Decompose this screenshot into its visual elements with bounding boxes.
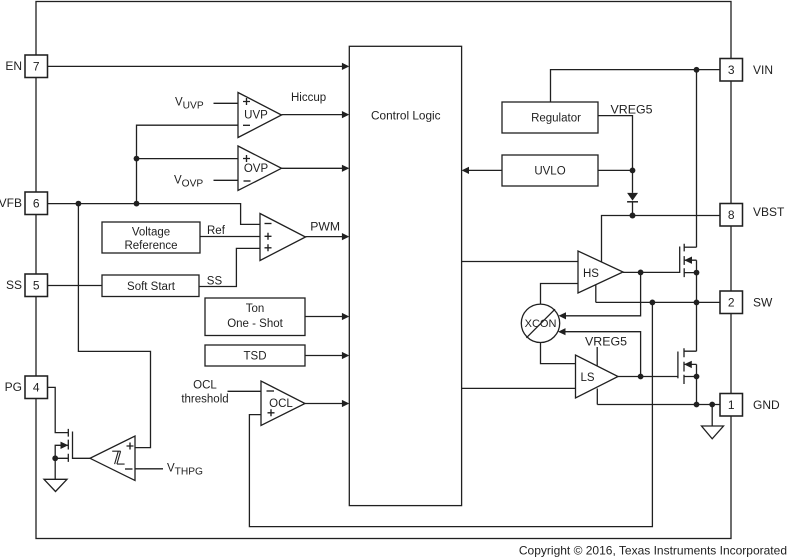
wire OCL out [305,400,349,407]
svg-text:7: 7 [33,60,40,74]
wire OVP out [282,165,350,172]
svg-text:OVP: OVP [244,163,269,175]
svg-text:PG: PG [5,380,22,394]
svg-text:3: 3 [728,63,735,77]
wire LS out to XCON [558,328,641,376]
wire Ref to PWM [200,225,260,237]
wire Q3 gate from comparator [73,457,91,459]
svg-text:8: 8 [728,208,735,222]
wire Hiccup UVP out [282,92,350,118]
comparator U5 THPG (points left) [90,436,135,481]
svg-text:threshold: threshold [181,394,228,406]
block Ton one-shot [205,298,305,336]
svg-text:VIN: VIN [753,63,773,77]
svg-text:VUVP: VUVP [175,97,204,112]
wire VOVP stub [214,179,239,181]
pin 2 SW [720,291,773,314]
svg-text:Soft Start: Soft Start [127,281,176,293]
node OCL threshold label [181,380,228,406]
wire Ton out [305,313,349,320]
svg-text:Copyright © 2016, Texas Instru: Copyright © 2016, Texas Instruments Inco… [519,544,787,558]
wire VFB to OVP plus [134,156,238,162]
svg-text:Ref: Ref [207,225,226,237]
wire OCL threshold stub [228,390,262,392]
comparator UVP [238,93,282,138]
wire UVLO to control logic [462,167,502,174]
wire TSD out [305,352,349,359]
block TSD [205,345,305,366]
svg-text:One - Shot: One - Shot [227,318,283,330]
pin 3 VIN [720,59,773,82]
transistor Q1 HS FET [680,244,700,303]
transistor Q3 PG pulldown [52,429,72,462]
comparator OVP [238,146,282,191]
comparator OCL [261,381,305,426]
svg-text:Reference: Reference [124,240,177,252]
wire control logic to LS [462,387,576,389]
ground at pin 1 [702,405,724,439]
wire control logic to HS [462,261,578,263]
svg-text:TSD: TSD [244,351,267,363]
comparator PWM [260,214,306,261]
wire THPG plus from VFB [78,204,150,448]
wire PG to Q3 drain [48,387,69,432]
pin 8 VBST [720,204,785,227]
svg-text:VREG5: VREG5 [585,335,627,349]
svg-text:1: 1 [728,398,735,412]
svg-text:VTHPG: VTHPG [167,463,203,478]
wire LS bottom to GND [596,389,598,405]
svg-text:UVLO: UVLO [534,166,565,178]
wire UVLO to VREG5 [598,168,635,174]
svg-text:6: 6 [33,197,40,211]
ground below Q3 [44,458,67,491]
wire SW line [596,300,720,306]
pin 6 VFB [0,192,48,215]
pin 7 EN [5,55,47,78]
svg-text:LS: LS [581,372,595,384]
svg-text:Regulator: Regulator [531,113,581,125]
circle XCON [521,304,559,342]
wire VFB to UVP minus [137,125,239,203]
block soft start [102,275,199,297]
wire HS out to Q1 gate [623,270,680,276]
wire SS to PWM [199,248,260,287]
svg-text:VBST: VBST [753,205,785,219]
svg-text:5: 5 [33,279,40,293]
wire VFB net [48,201,261,225]
svg-text:SS: SS [207,276,223,288]
wire VREG5 stub to LS [596,347,598,366]
svg-text:PWM: PWM [310,219,340,233]
svg-text:Hiccup: Hiccup [291,92,326,104]
diode D1 [627,193,638,202]
wire THPG minus stub [135,468,163,470]
wire pin5 to soft start [48,285,103,287]
pin 5 SS [6,274,48,297]
pin 1 GND [720,394,780,417]
wire VIN net [551,67,721,247]
wire HS out to XCON [559,272,641,319]
svg-text:SW: SW [753,296,773,310]
wire EN to control logic [48,63,350,70]
wire XCON to HS input [541,284,579,305]
svg-text:XCON: XCON [525,318,557,330]
svg-text:2: 2 [728,296,735,310]
driver LS [576,355,619,398]
wire XCON to LS input [541,342,576,363]
svg-text:Ton: Ton [246,303,265,315]
wire HS bottom to SW [595,285,597,303]
svg-text:EN: EN [5,59,22,73]
svg-text:OCL: OCL [193,380,217,392]
block regulator [502,102,598,133]
svg-text:VFB: VFB [0,196,22,210]
svg-text:GND: GND [753,398,780,412]
svg-text:HS: HS [583,268,599,280]
svg-text:VREG5: VREG5 [611,103,653,117]
svg-text:Control Logic: Control Logic [371,108,441,122]
driver HS [578,251,623,293]
block UVLO [502,155,598,186]
svg-text:SS: SS [6,278,22,292]
block voltage reference [102,222,200,253]
svg-text:4: 4 [33,381,40,395]
pin 4 PG [5,376,48,399]
wire VUVP stub [214,102,239,104]
svg-text:OCL: OCL [269,398,293,410]
wire OCL plus sense from SW [249,302,652,526]
svg-text:VOVP: VOVP [174,175,203,190]
wire VREG5 net [598,116,720,262]
wire LS out to Q2 gate [618,374,678,380]
svg-text:UVP: UVP [244,110,268,122]
control logic block U1 [349,46,461,505]
svg-text:Voltage: Voltage [132,227,170,239]
wire PWM out [306,219,350,240]
copyright [519,544,787,558]
transistor Q2 LS FET [678,302,699,404]
wire GND line [597,402,720,408]
